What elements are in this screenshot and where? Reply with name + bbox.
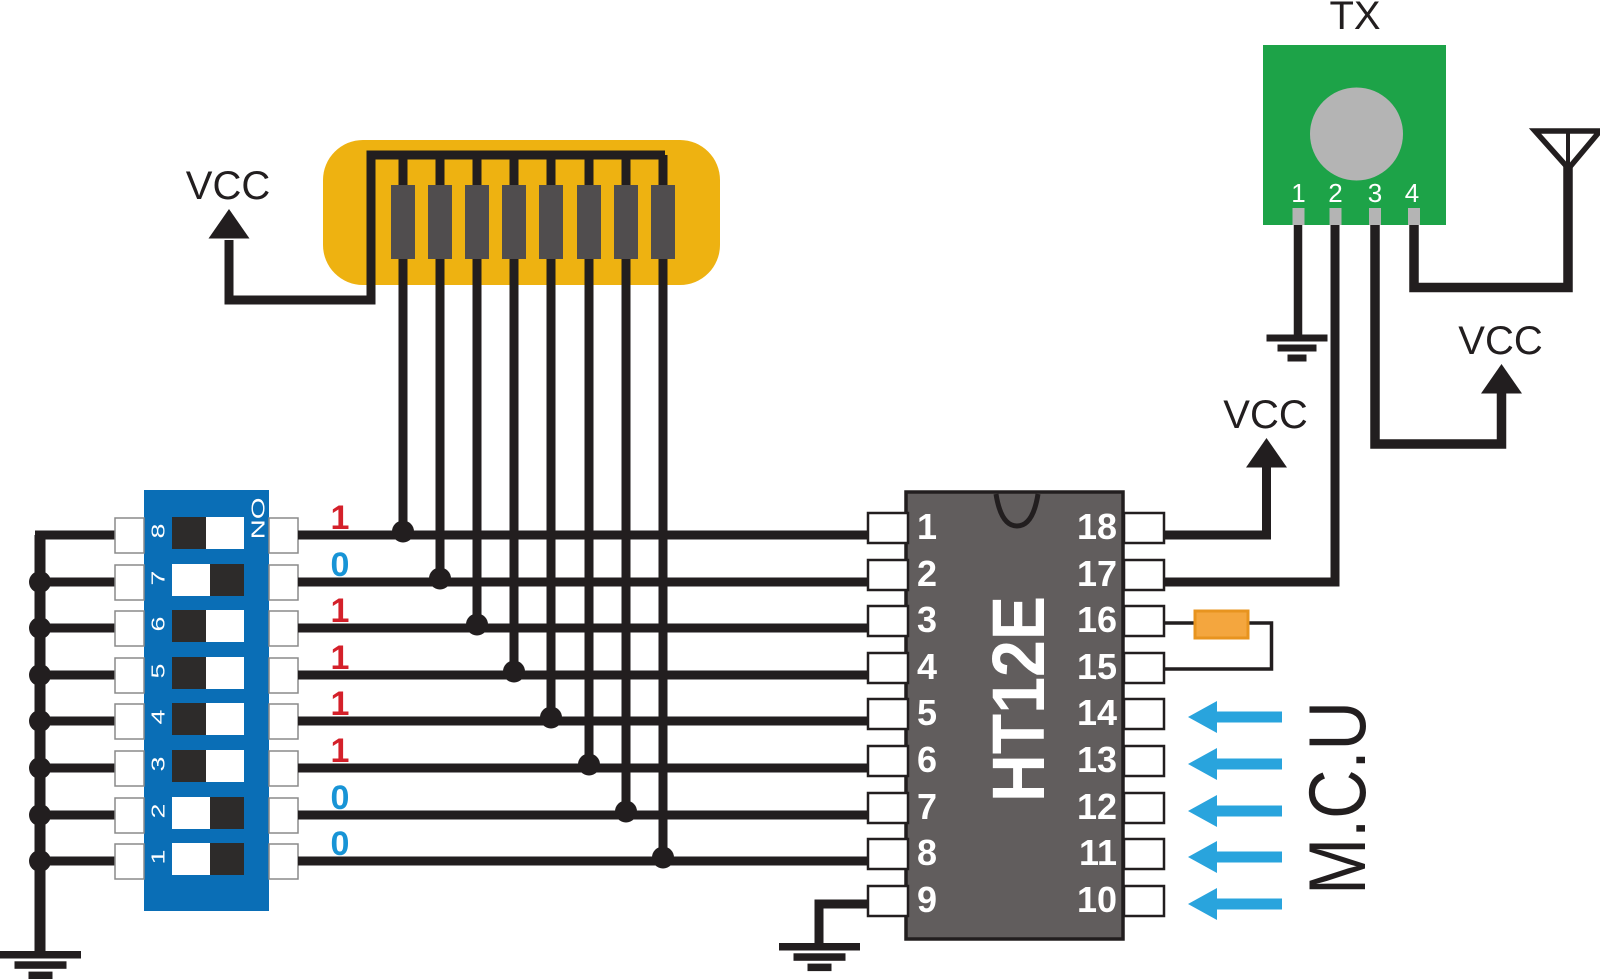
- wire TX pin3 to VCC: [1375, 225, 1502, 444]
- wire resistor R8 leg: [659, 155, 668, 861]
- svg-text:8: 8: [148, 524, 169, 539]
- IC notch: [996, 494, 1038, 526]
- junction bus row7: [29, 804, 51, 826]
- power VCC arrow (resistor network): [209, 209, 250, 239]
- junction R5 to row 5: [540, 707, 562, 729]
- junction R8 to row 8: [652, 847, 674, 869]
- resistor R2: [428, 185, 452, 259]
- resistor R3: [465, 185, 489, 259]
- TX coil circle: [1310, 88, 1403, 181]
- DIP sliders: [172, 517, 244, 875]
- MCU arrow pin14: [1188, 701, 1282, 733]
- svg-text:1: 1: [331, 592, 350, 630]
- ground (DIP bus): [0, 951, 81, 979]
- wire resistor R1 leg: [399, 155, 408, 535]
- svg-text:3: 3: [1368, 178, 1382, 208]
- junction bus row6: [29, 757, 51, 779]
- svg-text:0: 0: [331, 825, 350, 863]
- IC U1 HT12E body: [906, 492, 1123, 939]
- junction bus row2: [29, 571, 51, 593]
- DIP switch slots: [172, 517, 244, 875]
- svg-text:1: 1: [331, 732, 350, 770]
- svg-text:2: 2: [1328, 178, 1342, 208]
- wire resistor R3 leg: [473, 155, 482, 628]
- resistor R7: [614, 185, 638, 259]
- IC pin boxes right: [1124, 513, 1164, 916]
- MCU arrow pin13: [1188, 748, 1282, 780]
- svg-text:1: 1: [148, 850, 169, 865]
- junction R3 to row 3: [466, 614, 488, 636]
- junction R4 to row 4: [503, 661, 525, 683]
- TX pin stub 2: [1330, 208, 1342, 225]
- DIP pin boxes left: [115, 518, 144, 879]
- wire row7 DIP left: [35, 811, 116, 820]
- wire row8 DIP left: [35, 857, 116, 866]
- svg-text:1: 1: [331, 499, 350, 537]
- wire row3 DIP to IC pin3: [298, 624, 869, 633]
- antenna mast: [1566, 131, 1570, 168]
- wire pin17 to TX pin2: [1165, 225, 1335, 582]
- svg-text:0: 0: [331, 779, 350, 817]
- svg-text:5: 5: [917, 692, 937, 733]
- wire TX pin1 to ground: [1294, 225, 1303, 335]
- power VCC arrow (pin18): [1246, 438, 1287, 468]
- svg-text:1: 1: [331, 685, 350, 723]
- TX module body: [1263, 45, 1446, 225]
- resistor R9 (oscillator): [1195, 611, 1248, 638]
- junction R7 to row 7: [615, 801, 637, 823]
- resistor R4: [502, 185, 526, 259]
- wire row6 DIP left: [35, 764, 116, 773]
- junction bus row4: [29, 664, 51, 686]
- svg-text:1: 1: [917, 506, 937, 547]
- MCU arrow pin11: [1188, 841, 1282, 873]
- wire row8 DIP to IC pin8: [298, 857, 869, 866]
- wire row2 DIP to IC pin2: [298, 578, 869, 587]
- svg-text:1: 1: [1291, 178, 1305, 208]
- svg-text:M.C.U: M.C.U: [1292, 701, 1383, 895]
- junction R2 to row 2: [429, 568, 451, 590]
- ground (pin 9): [779, 943, 860, 971]
- svg-text:VCC: VCC: [1223, 393, 1307, 437]
- svg-text:14: 14: [1077, 692, 1117, 733]
- wire TX pin4 to antenna: [1414, 166, 1568, 288]
- wire row1 DIP to IC pin1: [298, 531, 869, 540]
- svg-text:12: 12: [1077, 786, 1117, 827]
- resistor R8: [651, 185, 675, 259]
- resistor R1: [391, 185, 415, 259]
- IC pin boxes left: [868, 513, 908, 916]
- wire resistor R2 leg: [436, 155, 445, 582]
- power VCC arrow (TX pin3): [1481, 364, 1522, 394]
- svg-text:11: 11: [1079, 832, 1117, 873]
- wire resistor R5 leg: [547, 155, 556, 721]
- wire row4 DIP to IC pin4: [298, 671, 869, 680]
- wire row2 DIP left: [35, 578, 116, 587]
- svg-text:18: 18: [1077, 506, 1117, 547]
- wire ground bus vertical: [35, 535, 46, 951]
- wire row6 DIP to IC pin6: [298, 764, 869, 773]
- svg-text:9: 9: [917, 879, 937, 920]
- svg-text:ON: ON: [248, 498, 268, 540]
- wire row1 DIP left: [35, 531, 116, 540]
- wire VCC feed to resistor bus: [229, 155, 665, 300]
- svg-text:17: 17: [1077, 553, 1117, 594]
- wire resistor R9 to pin15: [1165, 623, 1272, 669]
- svg-text:1: 1: [331, 639, 350, 677]
- svg-text:2: 2: [917, 553, 937, 594]
- svg-text:4: 4: [1405, 178, 1419, 208]
- svg-text:TX: TX: [1329, 0, 1380, 38]
- resistor R5: [539, 185, 563, 259]
- junction bus row3: [29, 617, 51, 639]
- svg-text:3: 3: [917, 599, 937, 640]
- wire pin16 to resistor R9: [1165, 621, 1200, 625]
- svg-text:7: 7: [148, 571, 169, 586]
- TX pin stub 1: [1293, 208, 1305, 225]
- DIP pin boxes right: [269, 518, 298, 879]
- wire pin18 to VCC: [1165, 466, 1267, 535]
- svg-text:8: 8: [917, 832, 937, 873]
- junction R1 to row 1: [392, 521, 414, 543]
- MCU arrow pin10: [1188, 888, 1282, 920]
- svg-text:3: 3: [148, 757, 169, 772]
- TX pin stub 4: [1408, 208, 1420, 225]
- wire pin9 to ground: [819, 904, 870, 947]
- svg-text:HT12E: HT12E: [976, 596, 1059, 802]
- wire resistor R7 leg: [622, 155, 631, 815]
- junction bus row5: [29, 710, 51, 732]
- svg-text:15: 15: [1077, 646, 1117, 687]
- wire row4 DIP left: [35, 671, 116, 680]
- TX pin stub 3: [1369, 208, 1381, 225]
- ground (TX pin1): [1267, 335, 1328, 362]
- resistor R6: [577, 185, 601, 259]
- wire resistor R4 leg: [510, 155, 519, 675]
- svg-text:2: 2: [148, 804, 169, 819]
- svg-text:4: 4: [148, 709, 169, 724]
- svg-text:6: 6: [148, 617, 169, 632]
- svg-text:5: 5: [148, 664, 169, 679]
- wire row3 DIP left: [35, 624, 116, 633]
- svg-text:VCC: VCC: [1458, 319, 1542, 363]
- svg-text:10: 10: [1077, 879, 1117, 920]
- wire row5 DIP to IC pin5: [298, 717, 869, 726]
- MCU arrow pin12: [1188, 795, 1282, 827]
- wire resistor R6 leg: [585, 155, 594, 768]
- junction R6 to row 6: [578, 754, 600, 776]
- svg-text:0: 0: [331, 546, 350, 584]
- DIP switch S1 body: [144, 490, 269, 911]
- antenna: [1535, 131, 1600, 169]
- svg-text:13: 13: [1077, 739, 1117, 780]
- svg-text:6: 6: [917, 739, 937, 780]
- svg-text:VCC: VCC: [186, 164, 270, 208]
- svg-text:16: 16: [1077, 599, 1117, 640]
- wire row7 DIP to IC pin7: [298, 811, 869, 820]
- wire row5 DIP left: [35, 717, 116, 726]
- resistor network RN1 body: [323, 140, 720, 285]
- junction bus row8: [29, 850, 51, 872]
- svg-text:4: 4: [917, 646, 937, 687]
- svg-text:7: 7: [917, 786, 937, 827]
